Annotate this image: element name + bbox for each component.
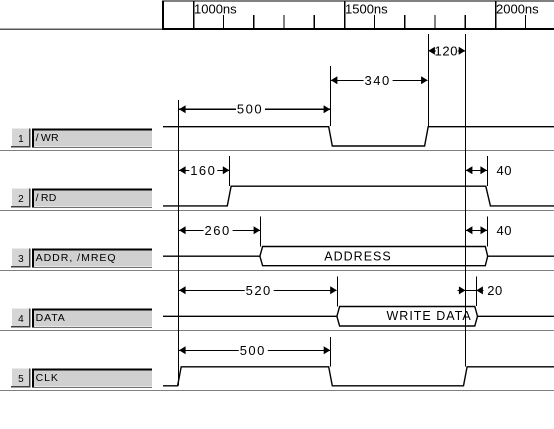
dimension witness line x487.2 row2	[487, 156, 489, 186]
dimension witness line x476.3 row4	[476, 276, 478, 306]
dimension 120 row1	[428, 44, 465, 59]
gray line left of ruler	[0, 28, 162, 30]
svg-text:3: 3	[18, 254, 24, 265]
button numbers	[18, 134, 24, 385]
svg-text:/RD: /RD	[36, 192, 57, 204]
ruler top bar	[162, 1, 554, 30]
dimension witness line long x178.7	[178, 100, 180, 386]
signal DATA bus waveform	[163, 307, 554, 317]
dimension witness line x330.5 row1	[330, 66, 332, 126]
ruler major tick 2000ns	[495, 1, 497, 29]
svg-text:CLK: CLK	[36, 372, 59, 384]
svg-text:520: 520	[246, 283, 272, 298]
dimension 40 row3	[466, 223, 512, 238]
svg-text:4: 4	[18, 314, 24, 325]
dimension witness line x337 row4	[337, 277, 339, 307]
dimension 500 row5	[179, 343, 330, 358]
dimension 260 row3	[179, 223, 260, 238]
dimension witness line long x465.5	[465, 34, 467, 366]
signal CLK waveform	[163, 367, 554, 386]
svg-text:2000ns: 2000ns	[496, 1, 539, 16]
svg-text:120: 120	[435, 44, 459, 59]
svg-text:500: 500	[237, 102, 263, 117]
dimension 40 row2	[466, 163, 512, 178]
dimension witness line x428 row1	[428, 34, 430, 126]
svg-text:WRITE DATA: WRITE DATA	[387, 309, 472, 323]
svg-text:340: 340	[364, 73, 390, 88]
label boxes	[32, 128, 152, 387]
signal /WR waveform	[163, 127, 554, 146]
dimension witness line x487.3 row3	[487, 217, 489, 247]
svg-text:500: 500	[240, 343, 266, 358]
signal ADDR,/MREQ bus waveform	[163, 247, 554, 257]
svg-text:160: 160	[190, 163, 216, 178]
dimension 20 row4 (outside arrows)	[458, 283, 503, 298]
dimension 520 row4	[179, 283, 337, 298]
dimension witness line x229.6 row2	[229, 156, 231, 186]
svg-text:1000ns: 1000ns	[194, 1, 237, 16]
svg-text:20: 20	[487, 283, 502, 298]
dimension witness line x260.4 row3	[260, 217, 262, 247]
label texts	[36, 132, 117, 384]
svg-text:40: 40	[497, 223, 512, 238]
dimension 500 row1	[179, 102, 330, 117]
svg-text:260: 260	[204, 223, 230, 238]
svg-text:1: 1	[18, 134, 24, 145]
ruler major tick 1000ns	[193, 1, 195, 29]
svg-text:DATA: DATA	[36, 312, 66, 324]
svg-text:40: 40	[497, 163, 512, 178]
dimension 160 row2	[179, 163, 229, 178]
svg-text:ADDRESS: ADDRESS	[324, 249, 391, 263]
ruler minor ticks	[224, 15, 526, 29]
row buttons 1-5	[11, 128, 31, 387]
svg-text:2: 2	[18, 194, 24, 205]
dimension witness line x330.5 row5	[330, 337, 332, 367]
signal /RD waveform	[163, 186, 554, 206]
svg-text:5: 5	[18, 374, 24, 385]
row separators	[0, 151, 554, 391]
svg-text:ADDR, /MREQ: ADDR, /MREQ	[36, 252, 117, 264]
dimension 340 row1	[331, 73, 428, 88]
ruler major tick 1500ns	[344, 1, 346, 29]
svg-text:1500ns: 1500ns	[345, 1, 388, 16]
